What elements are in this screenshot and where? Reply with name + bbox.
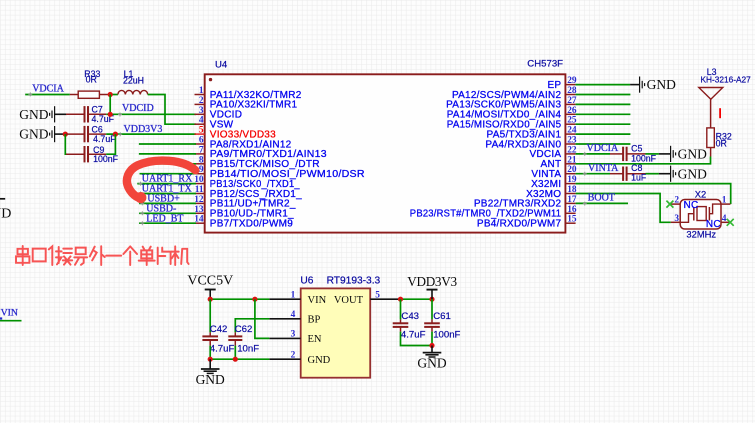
wire C9 up to VDD3V3 node bbox=[106, 134, 115, 154]
inductor L1 bbox=[118, 90, 148, 94]
wire C43 to GND row bbox=[401, 332, 433, 346]
wire pin 11 UART1_TX bbox=[137, 193, 196, 195]
svg-text:23: 23 bbox=[567, 136, 577, 146]
wire C6 to VDD3V3 pin 5 bbox=[106, 133, 196, 135]
svg-text:28: 28 bbox=[567, 86, 577, 96]
svg-text:GND: GND bbox=[196, 372, 225, 387]
svg-text:29: 29 bbox=[567, 76, 577, 86]
wire pin 21 ANT to R32 bbox=[576, 157, 711, 164]
svg-text:VDD3V3: VDD3V3 bbox=[407, 274, 457, 289]
pin 29 EP bbox=[547, 76, 576, 91]
junction C42 GND bbox=[208, 357, 213, 362]
pin 21 ANT bbox=[541, 155, 577, 170]
svg-text:EN: EN bbox=[308, 334, 322, 345]
wire GND to C6 bbox=[54, 133, 66, 135]
svg-text:3: 3 bbox=[291, 330, 296, 340]
capacitor C62 bbox=[228, 332, 242, 345]
svg-text:19: 19 bbox=[567, 175, 577, 185]
svg-text:CH573F: CH573F bbox=[527, 59, 563, 70]
svg-text:BOOT: BOOT bbox=[588, 193, 615, 204]
svg-text:0R: 0R bbox=[86, 75, 97, 85]
svg-text:KH-3216-A27: KH-3216-A27 bbox=[701, 75, 752, 85]
pin 26 PA14/MOSI/TXD0_/AIN4 bbox=[447, 106, 577, 121]
net anchor cross VDD3V3 bbox=[118, 132, 122, 136]
junction bottom GND right bbox=[429, 343, 434, 348]
net anchor cross UART1_RX bbox=[139, 182, 143, 186]
wire junction down to VDCID node bbox=[109, 95, 111, 115]
svg-text:8: 8 bbox=[199, 155, 204, 165]
wire pin 12 USBD+ bbox=[139, 202, 196, 204]
svg-text:C61: C61 bbox=[433, 311, 451, 322]
svg-text:27: 27 bbox=[567, 96, 577, 106]
partial ground symbol at left edge bbox=[0, 199, 11, 222]
wire pin 13 USBD- bbox=[139, 212, 196, 214]
svg-text:4.7uF: 4.7uF bbox=[401, 329, 426, 340]
wire pin 19 X32MI to crystal pin 1 bbox=[576, 184, 731, 205]
ground GND at C5 bbox=[671, 146, 707, 162]
no-connect X pin 2 bbox=[666, 201, 673, 208]
svg-text:C8: C8 bbox=[631, 163, 642, 173]
wire junction down to C9 bbox=[65, 134, 66, 154]
svg-text:18: 18 bbox=[567, 185, 577, 195]
svg-text:PB4/RXD0/PWM7: PB4/RXD0/PWM7 bbox=[477, 219, 562, 230]
svg-text:32MHz: 32MHz bbox=[686, 228, 716, 239]
red annotation circle around UART1 pins bbox=[127, 161, 195, 204]
svg-text:1: 1 bbox=[722, 196, 727, 206]
wire pin 7 PA9 bbox=[139, 153, 196, 155]
svg-text:1uF: 1uF bbox=[631, 172, 647, 182]
power VCC5V bbox=[187, 274, 233, 300]
wire pin 14 LED_BT bbox=[139, 222, 196, 224]
pin 24 PA5/TXD3/AIN1 bbox=[487, 126, 577, 141]
wire C61 to GND junction bbox=[431, 332, 433, 346]
svg-text:0R: 0R bbox=[716, 139, 727, 149]
pin 14 PB7/TXD0/PWM9 bbox=[194, 215, 293, 230]
net anchor cross UART1_TX bbox=[139, 192, 143, 196]
pin 27 PA13/SCK0/PWM5/AIN3 bbox=[446, 96, 577, 111]
svg-text:VCC5V: VCC5V bbox=[187, 274, 233, 289]
pin 2 PA10/X32KI/TMR1 bbox=[195, 96, 298, 111]
wire EN branch bbox=[255, 299, 269, 338]
pin 4 BP bbox=[269, 310, 320, 326]
svg-text:10nF: 10nF bbox=[237, 344, 259, 355]
junction C62 GND bbox=[233, 357, 238, 362]
svg-text:1: 1 bbox=[199, 86, 204, 96]
svg-text:GND: GND bbox=[0, 206, 11, 221]
svg-text:RT9193-3.3: RT9193-3.3 bbox=[327, 276, 381, 287]
capacitor C43 bbox=[393, 319, 409, 331]
pin-1 marker dot bbox=[209, 78, 212, 81]
net anchor cross VDCID bbox=[118, 113, 122, 117]
svg-text:VIN: VIN bbox=[308, 295, 327, 306]
svg-text:22uH: 22uH bbox=[123, 75, 144, 85]
wire pin 10 UART1_RX bbox=[137, 183, 196, 185]
wire pin 28 stub bbox=[576, 94, 631, 96]
wire black segment C8 GND bbox=[659, 173, 671, 175]
capacitor C42 bbox=[202, 332, 218, 345]
svg-text:PB7/TXD0/PWM9: PB7/TXD0/PWM9 bbox=[210, 219, 293, 230]
wire C61 branch down bbox=[431, 299, 433, 319]
svg-text:6: 6 bbox=[199, 136, 204, 146]
svg-text:3: 3 bbox=[199, 106, 204, 116]
wire C43 branch down bbox=[400, 299, 402, 319]
svg-text:C5: C5 bbox=[631, 144, 642, 154]
pin 13 PB10/UD-/TMR1_ bbox=[194, 205, 294, 220]
svg-text:C42: C42 bbox=[210, 324, 228, 335]
power VDD3V3 bottom bbox=[407, 274, 457, 299]
wire pin 24 stub bbox=[576, 133, 631, 135]
net anchor cross USBD+ bbox=[140, 201, 144, 205]
pin 18 X32MO bbox=[526, 185, 577, 200]
svg-text:3: 3 bbox=[674, 214, 679, 224]
pin 3 crystal bbox=[671, 214, 680, 224]
junction at R33/L1 node bbox=[108, 92, 113, 97]
svg-text:5: 5 bbox=[375, 290, 380, 300]
pin 17 PB22/TMR3/RXD2 bbox=[474, 195, 577, 210]
wire C8 to GND bbox=[646, 173, 659, 175]
junction VCC5V bbox=[208, 297, 213, 302]
svg-text:4: 4 bbox=[291, 310, 296, 320]
wire pin 22 VDCIA to C5 bbox=[576, 153, 610, 155]
wire pin 26 stub bbox=[576, 113, 631, 115]
svg-text:22: 22 bbox=[567, 145, 577, 155]
pin 1 crystal bbox=[721, 196, 730, 206]
pin 15 PB4/RXD0/PWM7 bbox=[477, 215, 577, 230]
svg-text:26: 26 bbox=[567, 106, 577, 116]
svg-text:24: 24 bbox=[567, 126, 577, 136]
pin 1 VIN bbox=[269, 290, 326, 306]
svg-text:GND: GND bbox=[678, 147, 707, 162]
antenna L3 bbox=[699, 88, 723, 120]
wire ground row to pin 2 bbox=[210, 358, 269, 360]
pin 16 PB23/RST#/TMR0_/TXD2/PWM11 bbox=[410, 205, 577, 220]
wire C42 to GND row bbox=[209, 346, 211, 360]
wire C62 to GND row bbox=[234, 346, 236, 360]
wire C5 to GND bbox=[646, 153, 659, 155]
ground GND at C8 bbox=[671, 166, 707, 182]
wire pin 29 EP to GND bbox=[576, 84, 631, 86]
svg-text:11: 11 bbox=[195, 185, 204, 195]
svg-text:100nF: 100nF bbox=[433, 329, 460, 340]
svg-text:VOUT: VOUT bbox=[334, 295, 364, 306]
svg-text:VDD3V3: VDD3V3 bbox=[124, 124, 163, 135]
ground GND below C42 bbox=[196, 359, 225, 387]
svg-text:C43: C43 bbox=[401, 311, 419, 322]
svg-text:BP: BP bbox=[308, 315, 321, 326]
svg-text:VDCID: VDCID bbox=[122, 103, 154, 114]
svg-text:4.7uF: 4.7uF bbox=[93, 134, 116, 144]
pin 2 NC crystal bbox=[671, 196, 699, 211]
capacitor C5 bbox=[610, 147, 646, 161]
resistor R32 bbox=[707, 119, 715, 157]
svg-text:C62: C62 bbox=[235, 324, 253, 335]
wire pin 20 VINTA to C8 bbox=[576, 173, 610, 175]
wire BP to C62 bbox=[235, 319, 269, 333]
svg-text:C7: C7 bbox=[92, 105, 103, 115]
pin 5 VIO33/VDD33 bbox=[195, 126, 277, 141]
capacitor C8 bbox=[610, 167, 646, 181]
pin 4 NC crystal bbox=[706, 214, 730, 230]
svg-text:U6: U6 bbox=[300, 276, 313, 287]
svg-text:16: 16 bbox=[567, 205, 577, 215]
svg-text:VIN: VIN bbox=[1, 307, 18, 318]
pin 9 PB14/TIO/MOSI_/PWM10/DSR bbox=[195, 165, 365, 180]
svg-text:17: 17 bbox=[567, 195, 577, 205]
pin 23 PA4/RXD3/AIN0 bbox=[485, 136, 576, 151]
svg-text:VDCIA: VDCIA bbox=[32, 83, 64, 94]
wire VOUT to VDD3V3 bbox=[401, 298, 433, 300]
pin 25 PA15/MISO/RXD0_/AIN5 bbox=[447, 116, 577, 131]
wire pin 8 PB15 bbox=[140, 163, 197, 165]
svg-text:25: 25 bbox=[567, 116, 577, 126]
svg-text:100nF: 100nF bbox=[93, 154, 119, 164]
ground GND at EP bbox=[640, 77, 676, 93]
pin 3 VDCID bbox=[195, 106, 243, 121]
svg-text:2: 2 bbox=[674, 196, 679, 206]
svg-text:X2: X2 bbox=[695, 188, 706, 199]
svg-text:20: 20 bbox=[567, 165, 577, 175]
svg-text:GND: GND bbox=[308, 355, 331, 366]
net anchor cross LED_BT bbox=[140, 221, 144, 225]
wire pin 27 stub bbox=[576, 103, 631, 105]
net anchor cross USBD- bbox=[140, 211, 144, 215]
pin 3 EN bbox=[269, 330, 322, 346]
wire C42 branch down bbox=[209, 299, 211, 332]
svg-text:7: 7 bbox=[199, 145, 204, 155]
pin 20 VINTA bbox=[531, 165, 577, 180]
capacitor C9 bbox=[66, 146, 106, 162]
wire pin 25 stub bbox=[576, 123, 631, 125]
svg-text:2: 2 bbox=[291, 350, 296, 360]
wire pin 9 PB14 bbox=[140, 173, 197, 175]
svg-text:VDCIA: VDCIA bbox=[587, 143, 619, 154]
svg-text:GND: GND bbox=[19, 127, 48, 142]
svg-text:C6: C6 bbox=[92, 124, 103, 134]
pin 19 X32MI bbox=[531, 175, 577, 190]
svg-text:GND: GND bbox=[417, 355, 446, 370]
svg-text:NC: NC bbox=[706, 219, 721, 230]
svg-text:GND: GND bbox=[19, 107, 48, 122]
partial net label VIN at bottom left bbox=[0, 307, 18, 319]
pin 2 GND bbox=[269, 350, 330, 366]
crystal X2 body bbox=[680, 200, 721, 230]
wire VIN partial bbox=[0, 320, 22, 322]
junction C6/C9 left node bbox=[63, 132, 68, 137]
capacitor C61 bbox=[424, 319, 440, 331]
pin 6 PA8/RXD1/AIN12 bbox=[195, 136, 292, 151]
no-connect X pin 4 bbox=[727, 219, 734, 226]
svg-text:U4: U4 bbox=[215, 59, 228, 70]
wire black segment C5 GND bbox=[659, 153, 671, 155]
wire pin 23 stub bbox=[576, 143, 631, 145]
net anchor cross VDCIA bbox=[28, 92, 32, 96]
wire C7 to VDCID pin 3 bbox=[106, 113, 196, 115]
svg-text:5: 5 bbox=[199, 126, 204, 136]
svg-text:NC: NC bbox=[684, 200, 699, 211]
svg-text:4: 4 bbox=[199, 116, 204, 126]
net anchor cross BOOT bbox=[583, 202, 587, 206]
wire GND to C7 bbox=[54, 113, 66, 115]
svg-text:LED_BT: LED_BT bbox=[146, 213, 183, 224]
ground GND at C6 bbox=[19, 126, 54, 142]
wire VCC5V to VIN bbox=[210, 298, 269, 300]
junction VDCID node bbox=[108, 112, 113, 117]
regulator U6 body bbox=[301, 288, 371, 377]
ground GND at C7 bbox=[19, 106, 54, 122]
ground GND below C61 bbox=[417, 346, 446, 371]
wire R33 to L1 with junction bbox=[108, 94, 118, 96]
svg-text:GND: GND bbox=[647, 77, 676, 92]
svg-text:1: 1 bbox=[291, 290, 296, 300]
junction C43 bbox=[398, 297, 403, 302]
junction VDD3V3 node bbox=[113, 132, 118, 137]
resistor R33 bbox=[70, 91, 108, 98]
crystal element bbox=[680, 204, 721, 222]
junction C61/VDD3V3 bbox=[429, 297, 434, 302]
svg-text:GND: GND bbox=[678, 166, 707, 181]
red chinese annotation text bbox=[16, 246, 189, 265]
pin 1 PA11/X32KO/TMR2 bbox=[195, 86, 302, 101]
svg-text:15: 15 bbox=[567, 215, 577, 225]
wire pin 6 PA8 bbox=[139, 143, 196, 145]
wire L1 to VSW pin 4 bbox=[148, 95, 196, 125]
pin 8 PB15/TCK/MISO_/DTR bbox=[195, 155, 320, 170]
svg-text:9: 9 bbox=[199, 165, 204, 175]
svg-text:4.7uF: 4.7uF bbox=[210, 344, 235, 355]
pin 11 PB12/SCS_/RXD1_ bbox=[195, 185, 303, 200]
pin 28 PA12/SCS/PWM4/AIN2 bbox=[452, 86, 577, 101]
pin 12 PB11/UD+/TMR2_ bbox=[194, 195, 296, 210]
capacitor C7 bbox=[66, 106, 106, 122]
pin 10 PB13/SCK0_/TXD1_ bbox=[194, 175, 300, 190]
net anchor cross VINTA bbox=[583, 172, 587, 176]
svg-text:VINTA: VINTA bbox=[588, 163, 619, 174]
capacitor C6 bbox=[66, 126, 106, 142]
wire black segment to GND symbol bbox=[630, 84, 639, 86]
pin 4 VSW bbox=[195, 116, 234, 131]
junction EN branch bbox=[252, 297, 257, 302]
wire VDCIA to R33 bbox=[25, 94, 70, 96]
svg-text:4: 4 bbox=[722, 214, 727, 224]
pin 22 VDCIA bbox=[529, 145, 576, 160]
pin 5 VOUT bbox=[334, 290, 401, 306]
pin 1 mark antenna bbox=[719, 108, 721, 118]
op-amp U4 CH573F body bbox=[205, 74, 566, 232]
svg-text:21: 21 bbox=[567, 155, 577, 165]
net anchor cross VDCIA right bbox=[583, 152, 587, 156]
wire pin 18 X32MO to crystal pin 3 bbox=[576, 194, 671, 223]
pin 7 PA9/TMR0/TXD1/AIN13 bbox=[195, 145, 327, 160]
wire pin 17 BOOT bbox=[576, 202, 628, 204]
svg-text:2: 2 bbox=[199, 96, 204, 106]
